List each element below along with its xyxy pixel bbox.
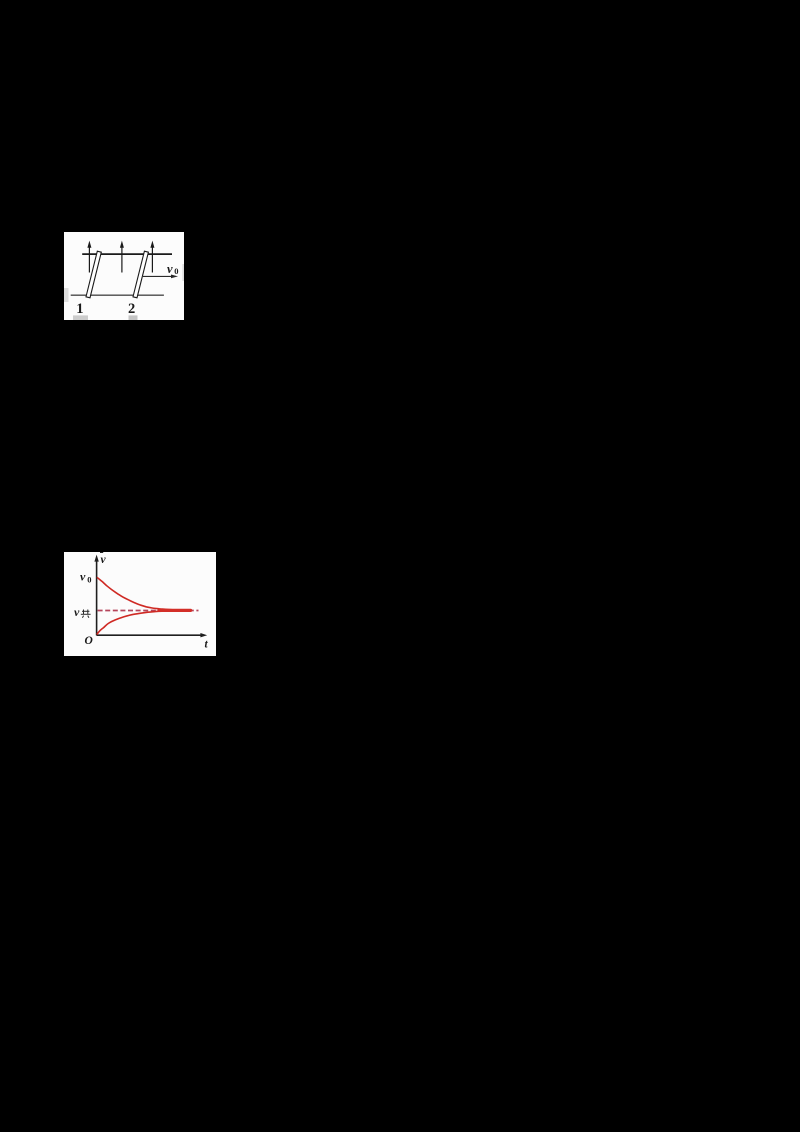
figure 2: v-t graph [64,552,216,656]
upper red curve from v0 [97,577,190,610]
scan notch top edge [100,551,103,554]
svg-text:1: 1 [76,301,83,317]
top rail line [82,253,172,255]
t axis [97,633,208,637]
dashed line v_common [98,609,199,611]
bottom ground line [71,294,164,296]
field arrow middle [120,240,124,272]
field arrow left [87,240,91,272]
svg-text:O: O [85,635,93,647]
velocity arrow v0 [143,274,178,278]
svg-text:t: t [204,639,208,651]
conducting bar 2 [133,251,148,298]
svg-text:0: 0 [174,266,178,276]
gray scan artifact right edge [182,264,184,281]
figure 1: two conducting bars on rails [64,232,184,321]
svg-text:v: v [167,262,173,276]
merged thick red segment at v_common [159,609,191,612]
svg-text:0: 0 [87,574,91,584]
field arrow right [150,240,154,272]
svg-text:v: v [80,569,86,583]
svg-text:2: 2 [128,301,135,317]
conducting bar 1 [86,251,101,298]
svg-text:v: v [101,554,107,566]
v axis [94,555,98,636]
lower red curve from O [97,611,190,635]
gray scan artifact under label 2 [129,315,138,320]
gray scan artifact left edge [64,288,69,302]
svg-text:v: v [74,605,80,619]
gray scan artifact under label 1 [73,315,88,320]
